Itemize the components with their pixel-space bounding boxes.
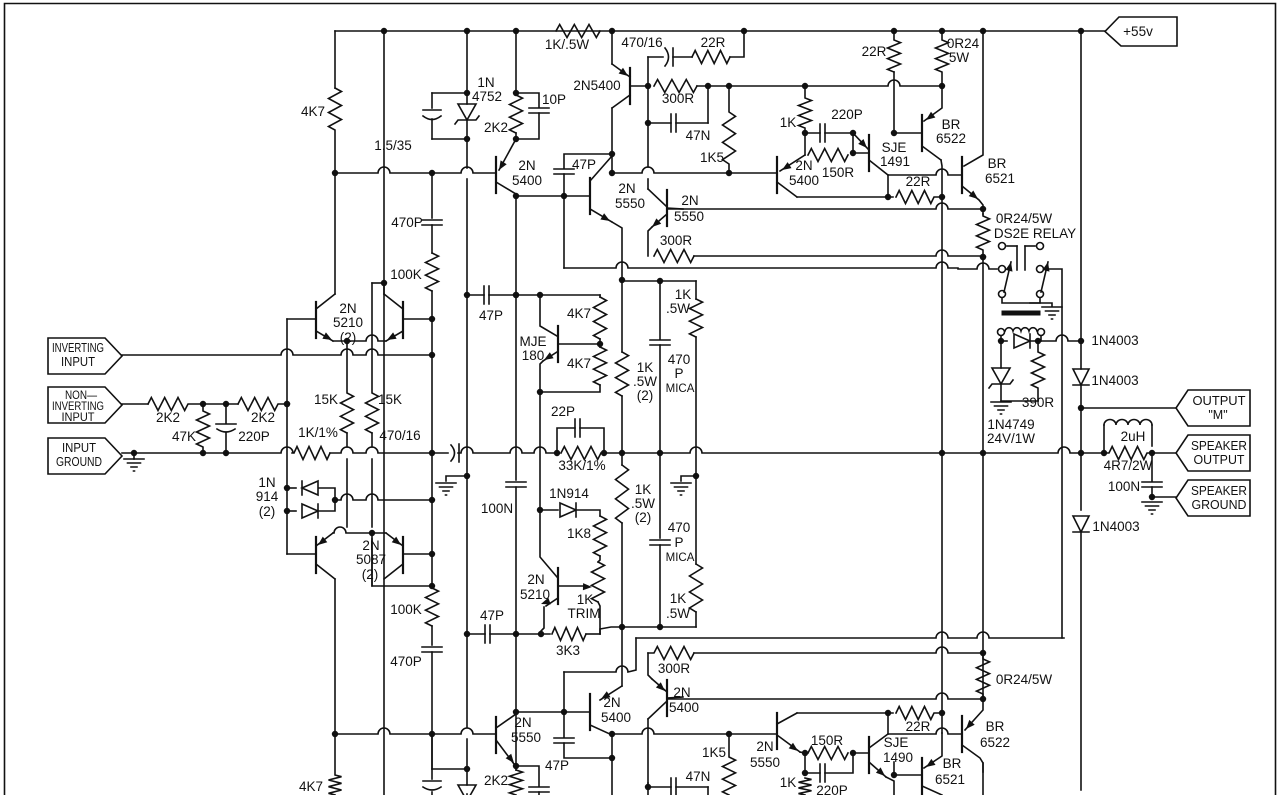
zener D-1N4752 bbox=[455, 104, 479, 124]
svg-text:470P: 470P bbox=[390, 654, 422, 669]
wire gnd elbow r bbox=[681, 476, 696, 481]
svg-text:.5W: .5W bbox=[631, 496, 655, 511]
svg-text:1K/1%: 1K/1% bbox=[298, 425, 338, 440]
node x660-281 bbox=[658, 279, 663, 284]
capacitor C-470/16 mid bbox=[451, 444, 459, 462]
label BR 6521a bbox=[988, 156, 1007, 171]
wire 220P left bbox=[805, 132, 820, 134]
node mje base bbox=[598, 342, 603, 347]
wire 4K7 branch corner bbox=[334, 31, 336, 88]
wire inverting input bbox=[122, 349, 432, 355]
wire 47N drop bot bbox=[707, 787, 709, 795]
label .5W 3 bbox=[666, 606, 690, 621]
label 0R24/5W mid bbox=[996, 211, 1053, 226]
relay out right bbox=[1044, 269, 1062, 638]
resistor R-4R7/2W bbox=[1104, 447, 1152, 460]
svg-text:1.5/35: 1.5/35 bbox=[374, 138, 412, 153]
svg-text:2N: 2N bbox=[603, 695, 620, 710]
wire 10P loop bot2 bbox=[538, 792, 540, 795]
label 22R top bbox=[701, 35, 726, 50]
capacitor C-220Pb bbox=[820, 764, 825, 782]
emitter diag Q-5210b bbox=[546, 598, 558, 606]
svg-text:100N: 100N bbox=[1108, 479, 1140, 494]
transistor Q-5210b bar bbox=[557, 568, 559, 604]
ground speaker bbox=[1142, 502, 1162, 514]
diode D-1N4003 up bbox=[1073, 369, 1089, 385]
wire y699 vbe bot bbox=[667, 693, 983, 699]
wire cap 1.5/35 left upper bbox=[431, 93, 433, 108]
wire y256 to right bbox=[694, 250, 983, 256]
wire x564 bot seg bbox=[563, 672, 565, 712]
wire x1081 top bbox=[1080, 31, 1082, 341]
svg-text:22R: 22R bbox=[906, 174, 931, 189]
label 390R bbox=[1022, 395, 1055, 410]
relay coil core bbox=[1004, 311, 1038, 316]
node rail-x744 bbox=[742, 29, 747, 34]
flag INVERTING INPUT bbox=[48, 338, 122, 374]
label 1K 3 bbox=[670, 591, 687, 606]
relay coil bbox=[1005, 328, 1037, 331]
node rail-x612 bbox=[610, 29, 615, 34]
wire 47Pa left lead bbox=[467, 294, 484, 296]
label INPUT2 bbox=[62, 410, 96, 424]
node diode mid bbox=[333, 498, 338, 503]
wire y209 vbe line bbox=[667, 203, 983, 209]
label 6522b bbox=[980, 735, 1010, 750]
label INPUT bbox=[62, 441, 96, 455]
label 1K bot bbox=[780, 775, 797, 790]
node rail-983 bbox=[981, 451, 986, 456]
node x648-787 bbox=[646, 785, 651, 790]
svg-text:100N: 100N bbox=[481, 501, 513, 516]
wire 15Ka lower bbox=[346, 433, 348, 527]
label 1K/.5W bbox=[545, 37, 590, 52]
wire 47N right bbox=[676, 122, 708, 124]
resistor R-390R bbox=[1032, 341, 1045, 401]
node gnd elbow r bbox=[694, 474, 699, 479]
label 1490 bbox=[883, 750, 913, 765]
emitter diag Q-5210R bbox=[386, 331, 403, 341]
relay arm left arrow bbox=[1005, 262, 1012, 272]
node x287-511 bbox=[285, 509, 290, 514]
node y713-888 bbox=[886, 711, 891, 716]
label 470 b bbox=[668, 520, 691, 535]
wire y634-to-622 bbox=[586, 633, 600, 635]
wire y734 to BR bbox=[888, 728, 962, 734]
label 5210 bbox=[333, 315, 363, 330]
label P a bbox=[674, 366, 683, 381]
label P b bbox=[674, 535, 683, 550]
node caploop bot bbox=[465, 767, 470, 772]
emitter arrow Q-SJE1491 bbox=[858, 139, 867, 148]
label 470/16 top bbox=[621, 35, 662, 50]
wire x612 bot bbox=[611, 734, 613, 758]
label 47K bbox=[172, 429, 196, 444]
label 1K trim bbox=[577, 592, 594, 607]
ground mid bbox=[436, 483, 456, 495]
label NON- bbox=[65, 388, 97, 402]
emitter diag Q-2N5400a bbox=[612, 64, 630, 77]
svg-text:22R: 22R bbox=[701, 35, 726, 50]
node 150R right bbox=[851, 151, 856, 156]
wire collector to 22Rb bbox=[797, 196, 893, 198]
wire 1k8-trim link bbox=[598, 556, 600, 562]
collector diag Q-2N5400c bbox=[496, 182, 516, 194]
svg-text:2K2: 2K2 bbox=[156, 410, 180, 425]
label 22Rb bbox=[906, 174, 931, 189]
node x432-586 bbox=[430, 584, 435, 589]
wire 5550a emitter bbox=[612, 222, 622, 280]
label 2N 5550b bbox=[681, 193, 698, 208]
resistor R-100K top bbox=[426, 253, 439, 291]
wire mid rail C bbox=[458, 447, 556, 453]
emitter arrow Q-5550d bbox=[789, 743, 798, 751]
svg-text:2N: 2N bbox=[681, 193, 698, 208]
capacitor C-10P bbox=[529, 108, 549, 113]
wire 47Pb left bbox=[467, 633, 485, 635]
transistor Q-5400e bar bbox=[666, 680, 668, 716]
svg-text:5400: 5400 bbox=[601, 710, 631, 725]
relay contact c2 bbox=[1037, 243, 1044, 250]
label 1491 bbox=[880, 154, 910, 169]
wire to spkgnd flag bbox=[1152, 496, 1176, 498]
label 2uH bbox=[1121, 429, 1146, 444]
label .5Wb bbox=[631, 496, 655, 511]
node y699 end bbox=[981, 697, 986, 702]
emitter diag Q-2N5400b bbox=[780, 155, 805, 171]
capacitor C-220P in bbox=[216, 424, 236, 432]
node 2K2b right bbox=[285, 402, 290, 407]
svg-text:1K/.5W: 1K/.5W bbox=[545, 37, 590, 52]
wire x612 join bbox=[611, 154, 613, 173]
resistor R-2K2 ina bbox=[148, 398, 203, 411]
label 2N c bbox=[518, 158, 535, 173]
svg-text:2N: 2N bbox=[527, 572, 544, 587]
label 1N4003 b bbox=[1091, 373, 1138, 388]
node ind left bbox=[1102, 451, 1107, 456]
node 47K top rail bbox=[201, 451, 206, 456]
svg-text:(2): (2) bbox=[340, 330, 357, 345]
svg-text:BR: BR bbox=[942, 117, 961, 132]
svg-text:6521: 6521 bbox=[935, 772, 965, 787]
emitter arrow Q-5210L bbox=[322, 332, 332, 340]
node rail-557 bbox=[555, 451, 560, 456]
wire y713 left bbox=[797, 712, 893, 714]
label 150R bbox=[822, 165, 855, 180]
svg-text:+55v: +55v bbox=[1123, 24, 1153, 39]
emitter diag Q-5087L bbox=[316, 533, 333, 546]
svg-text:2N: 2N bbox=[518, 158, 535, 173]
node x287-404 bbox=[285, 402, 290, 407]
svg-text:1K: 1K bbox=[670, 591, 687, 606]
wire diode2 lead bbox=[287, 510, 296, 512]
zener D-1N4749 bbox=[989, 368, 1013, 388]
label +55v bbox=[1123, 24, 1153, 39]
node rail-660 bbox=[658, 451, 663, 456]
node rail173-432 bbox=[430, 171, 435, 176]
label 1N4003 relay bbox=[1091, 333, 1138, 348]
wire x564 bot seg2 bbox=[563, 712, 565, 737]
resistor R-4K7a bbox=[594, 297, 607, 339]
svg-text:1K5: 1K5 bbox=[702, 745, 726, 760]
svg-text:47N: 47N bbox=[686, 128, 711, 143]
svg-text:1N: 1N bbox=[258, 475, 275, 490]
wire x612 bot2 bbox=[611, 758, 613, 795]
wire 1K-150Rb link bbox=[804, 753, 806, 774]
label MICA b bbox=[666, 552, 695, 564]
label 0R24/5W bot bbox=[996, 672, 1053, 687]
wire 47Pa right lead bbox=[489, 294, 516, 296]
label 4K7b bbox=[567, 356, 591, 371]
label BR 6522a bbox=[942, 117, 961, 132]
emitter diag Q-5550d bbox=[777, 735, 800, 752]
emitter arrow Q-BR6521 bbox=[969, 191, 978, 200]
label 1K8 bbox=[567, 526, 591, 541]
base wiper Q-5210b bbox=[558, 585, 586, 587]
wire 47N drop bbox=[707, 86, 709, 123]
label 1K drv bbox=[780, 115, 797, 130]
svg-text:2N: 2N bbox=[756, 739, 773, 754]
svg-text:GROUND: GROUND bbox=[1192, 498, 1247, 512]
label OUTPUT bbox=[1193, 394, 1246, 408]
svg-text:1K5: 1K5 bbox=[700, 150, 724, 165]
svg-text:22P: 22P bbox=[551, 404, 575, 419]
relay arm right arrow bbox=[1042, 262, 1049, 272]
label 2N d bbox=[603, 695, 620, 710]
node rail734-335 bbox=[333, 732, 338, 737]
transistor Q-5210L bar bbox=[315, 302, 317, 338]
collector diag Q-2N5400a bbox=[612, 95, 630, 108]
ground mid right bbox=[671, 483, 691, 495]
wire 22R to rail bbox=[730, 31, 744, 57]
wire 15Kb lower bbox=[371, 433, 373, 586]
label 2N top drv bbox=[795, 158, 812, 173]
resistor R-1K drv bbox=[799, 86, 812, 133]
wire trim bottom bbox=[598, 602, 600, 634]
node rail734-612 bbox=[610, 732, 615, 737]
label 0R24 bbox=[947, 36, 980, 51]
wire 5087L coll down bbox=[334, 579, 336, 733]
node gnd stub bbox=[132, 451, 137, 456]
transistor Q-SJE1490 bar bbox=[868, 737, 870, 773]
capacitor C-47Pa bbox=[484, 286, 489, 304]
base Q-5210R bbox=[403, 318, 432, 320]
wire vas rail y173 left bbox=[335, 167, 496, 173]
wire x983 tail bbox=[982, 763, 984, 795]
svg-text:47N: 47N bbox=[686, 769, 711, 784]
svg-text:22R: 22R bbox=[906, 719, 931, 734]
label TRIM bbox=[568, 606, 601, 621]
svg-text:5210: 5210 bbox=[333, 315, 363, 330]
emitter diag Q-5550a bbox=[590, 209, 612, 222]
label 24V/1W bbox=[987, 431, 1035, 446]
svg-text:1490: 1490 bbox=[883, 750, 913, 765]
svg-text:GROUND: GROUND bbox=[56, 455, 102, 469]
svg-text:SPEAKER: SPEAKER bbox=[1191, 484, 1247, 498]
svg-text:470/16: 470/16 bbox=[621, 35, 662, 50]
label (2) 5087 bbox=[362, 567, 379, 582]
svg-text:5550: 5550 bbox=[674, 209, 704, 224]
emitter diag Q-MJE180 bbox=[543, 352, 557, 361]
wire 470/16 branch bbox=[648, 56, 663, 58]
capacitor C-470/16 top bbox=[665, 48, 673, 66]
relay contact c1 bbox=[999, 243, 1006, 250]
svg-text:300R: 300R bbox=[658, 661, 691, 676]
node x287-488 bbox=[285, 486, 290, 491]
label 3K3 bbox=[556, 643, 580, 658]
wire y196 base wire bbox=[516, 195, 590, 197]
resistor R-1K5W0 bbox=[690, 299, 703, 337]
emitter arrow Q-2N5400a bbox=[619, 68, 628, 76]
wire 100N spk bot bbox=[1151, 487, 1153, 497]
node 1K5 bottom bbox=[727, 171, 732, 176]
resistor R-33K/1% bbox=[561, 447, 601, 460]
resistor R-1K TRIM bbox=[592, 562, 605, 602]
label 2N5400a bbox=[573, 78, 620, 93]
base Q-5087R bbox=[403, 553, 432, 555]
wire 47N bot right bbox=[676, 786, 708, 788]
capacitor C-100N spk bbox=[1142, 482, 1162, 487]
node 15Kb bottom bbox=[370, 531, 375, 536]
emitter arrow Q-5550c bbox=[506, 754, 514, 763]
wire mje emitter bbox=[540, 361, 543, 392]
wire 10P loop bot bbox=[516, 766, 539, 786]
svg-text:SPEAKER: SPEAKER bbox=[1191, 439, 1247, 453]
wire 5550b emitter bbox=[648, 227, 652, 256]
label 2N e bbox=[673, 685, 690, 700]
wire LTP emitters bbox=[333, 335, 386, 341]
node x622-280 bbox=[620, 278, 625, 283]
wire mid rail B bbox=[330, 447, 448, 453]
svg-text:2uH: 2uH bbox=[1121, 429, 1146, 444]
emitter arrow Q-5210R bbox=[387, 332, 397, 340]
label 470/16 mid bbox=[379, 428, 420, 443]
label 22R vert bbox=[862, 44, 887, 59]
resistor R-150R bbox=[808, 149, 848, 162]
wire x1081 mid bbox=[1080, 341, 1082, 369]
wiper arrow bbox=[583, 583, 592, 590]
wire relay diode right bbox=[1031, 335, 1081, 341]
svg-text:MICA: MICA bbox=[666, 383, 695, 395]
collector diag Q-5400e bbox=[648, 702, 666, 719]
relay stub c1 bbox=[1007, 245, 1017, 247]
wire x384 vertical bbox=[383, 31, 385, 283]
capacitor C-47N bbox=[671, 114, 676, 132]
node x648-86 bbox=[646, 84, 651, 89]
wire 22R vert lower bbox=[893, 72, 895, 133]
svg-text:10P: 10P bbox=[542, 92, 566, 107]
wire x648 bottom tail bbox=[647, 783, 649, 795]
wire x622 seg4 bbox=[621, 627, 623, 686]
inductor L-2uH bbox=[1104, 420, 1152, 426]
svg-text:47P: 47P bbox=[572, 157, 596, 172]
capacitor C-220P bbox=[820, 124, 825, 142]
node rail-622 bbox=[620, 451, 625, 456]
label .5Wa bbox=[633, 374, 657, 389]
flag INPUT GROUND bbox=[48, 438, 122, 474]
label 470 a bbox=[668, 352, 691, 367]
emitter arrow Q-MJE180 bbox=[544, 352, 554, 360]
wire 5400e emitter bbox=[648, 653, 652, 679]
svg-text:1K: 1K bbox=[780, 775, 797, 790]
label 300R top bbox=[662, 91, 695, 106]
wire relay feed bbox=[958, 263, 997, 269]
label 1Kb bbox=[635, 482, 652, 497]
label 5210b bbox=[520, 587, 550, 602]
svg-text:2N: 2N bbox=[795, 158, 812, 173]
wire x1081 low bbox=[1080, 408, 1082, 510]
node rail-604 bbox=[602, 451, 607, 456]
svg-text:1N914: 1N914 bbox=[549, 486, 589, 501]
svg-text:100K: 100K bbox=[390, 602, 422, 617]
wire 220Pb left bbox=[805, 772, 820, 774]
wire zener column below rail bbox=[466, 179, 468, 295]
svg-text:1K: 1K bbox=[577, 592, 594, 607]
node coil-diode L bbox=[999, 339, 1004, 344]
wire 5550d emitter bbox=[800, 752, 805, 753]
svg-text:2K2: 2K2 bbox=[484, 120, 508, 135]
wire zener column top bbox=[466, 31, 468, 104]
svg-text:INPUT: INPUT bbox=[62, 441, 96, 455]
label 6521a bbox=[985, 171, 1015, 186]
label 2K2 ina bbox=[156, 410, 180, 425]
wire 1k5W0 bot bbox=[695, 337, 697, 476]
wire 220Pb right bbox=[825, 753, 853, 773]
svg-text:3K3: 3K3 bbox=[556, 643, 580, 658]
wire zener 4749 top bbox=[1000, 341, 1002, 368]
capacitor C-47Pb bbox=[485, 625, 490, 643]
wire 2K2b top bbox=[515, 766, 517, 770]
svg-text:.5W: .5W bbox=[666, 606, 690, 621]
svg-text:1K: 1K bbox=[780, 115, 797, 130]
node x622-627 bbox=[620, 625, 625, 630]
base wire BR6521b bbox=[894, 774, 922, 776]
wire x648 bott bbox=[647, 719, 649, 783]
wire 5087 emitters bbox=[333, 527, 386, 533]
wire 4K7b bottom bbox=[540, 385, 600, 392]
emitter diag Q-BR6522b bbox=[965, 699, 983, 730]
diode D-1N4003 dn bbox=[1073, 516, 1089, 532]
wire 47Pb right bbox=[490, 633, 516, 635]
label 5550 f bbox=[750, 755, 780, 770]
svg-text:(2): (2) bbox=[637, 388, 654, 403]
wire vas rail y173 right bbox=[612, 167, 777, 173]
label SPEAKER g bbox=[1191, 484, 1247, 498]
node y775-894 bbox=[892, 773, 897, 778]
wire x432 mid2 bbox=[431, 291, 433, 588]
label 5W bbox=[949, 50, 970, 65]
wire relay return rail bbox=[636, 632, 1064, 638]
node x516-634 bbox=[514, 632, 519, 637]
svg-text:15K: 15K bbox=[378, 392, 402, 407]
wire x888 bot bbox=[887, 713, 889, 734]
wire 470/16 to 22R bbox=[673, 56, 692, 58]
wire x540 low bbox=[539, 392, 541, 510]
svg-text:2N: 2N bbox=[514, 715, 531, 730]
base Q-2N5400a bbox=[630, 85, 648, 87]
capacitor C-470P top bbox=[422, 220, 442, 225]
emitter arrow Q-5087L bbox=[318, 537, 327, 545]
node base5210R bbox=[430, 317, 435, 322]
capacitor C-100N bbox=[506, 482, 526, 487]
wire y712 base bbox=[516, 711, 590, 713]
node gnd elbow mid bbox=[465, 474, 470, 479]
svg-text:2N: 2N bbox=[673, 685, 690, 700]
base Q-5400e bbox=[667, 697, 683, 698]
svg-text:BR: BR bbox=[988, 156, 1007, 171]
svg-text:1N4003: 1N4003 bbox=[1091, 333, 1138, 348]
label 5550a bbox=[615, 196, 645, 211]
